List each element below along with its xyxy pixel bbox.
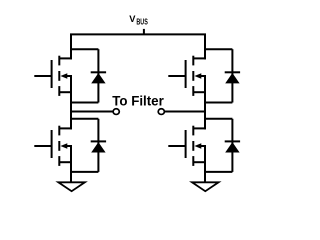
wire: right output terminal to right switch node xyxy=(165,111,206,113)
wire: D1 anode connect xyxy=(71,102,98,104)
wire: branch to D3 cathode xyxy=(205,48,232,50)
wire: V_BUS label tick xyxy=(143,29,145,35)
svg-text:To Filter: To Filter xyxy=(112,94,164,109)
node: To Filter terminal (right) xyxy=(158,109,164,115)
wire: D2 anode connect xyxy=(71,171,98,173)
wire: D4 cathode connect xyxy=(205,118,232,120)
wire: bus to Q3 drain xyxy=(204,34,206,59)
node: To Filter terminal (left) xyxy=(113,109,119,115)
wire: D4 anode connect xyxy=(205,171,232,173)
diode D2 (body diode) xyxy=(91,119,106,172)
wire: D2 cathode connect xyxy=(71,118,98,120)
svg-text:V: V xyxy=(129,13,136,24)
ground (left leg) xyxy=(58,182,85,191)
wire: Q2 source to ground xyxy=(70,146,72,182)
transistor Q3 (N-MOSFET) xyxy=(168,56,206,96)
diode D3 (body diode) xyxy=(225,49,240,102)
transistor Q1 (N-MOSFET) xyxy=(34,56,72,96)
diode D1 (body diode) xyxy=(91,49,106,102)
wire: Q1 source down to Q2 drain (left switch node) xyxy=(70,76,72,129)
transistor Q2 (N-MOSFET) xyxy=(34,126,72,166)
wire: branch to D1 cathode xyxy=(71,48,98,50)
wire: Q4 source to ground xyxy=(204,146,206,182)
wire: left switch node to left output terminal xyxy=(71,111,113,113)
wire: Q3 source down to Q4 drain (right switch node) xyxy=(204,76,206,129)
wire: V_BUS rail xyxy=(70,33,206,35)
diode D4 (body diode) xyxy=(225,119,240,172)
wire: D3 anode connect xyxy=(205,102,232,104)
wire: bus to Q1 drain xyxy=(70,34,72,59)
net label V_BUS xyxy=(129,13,147,27)
svg-text:BUS: BUS xyxy=(136,18,147,27)
ground (right leg) xyxy=(192,182,219,191)
transistor Q4 (N-MOSFET) xyxy=(168,126,206,166)
